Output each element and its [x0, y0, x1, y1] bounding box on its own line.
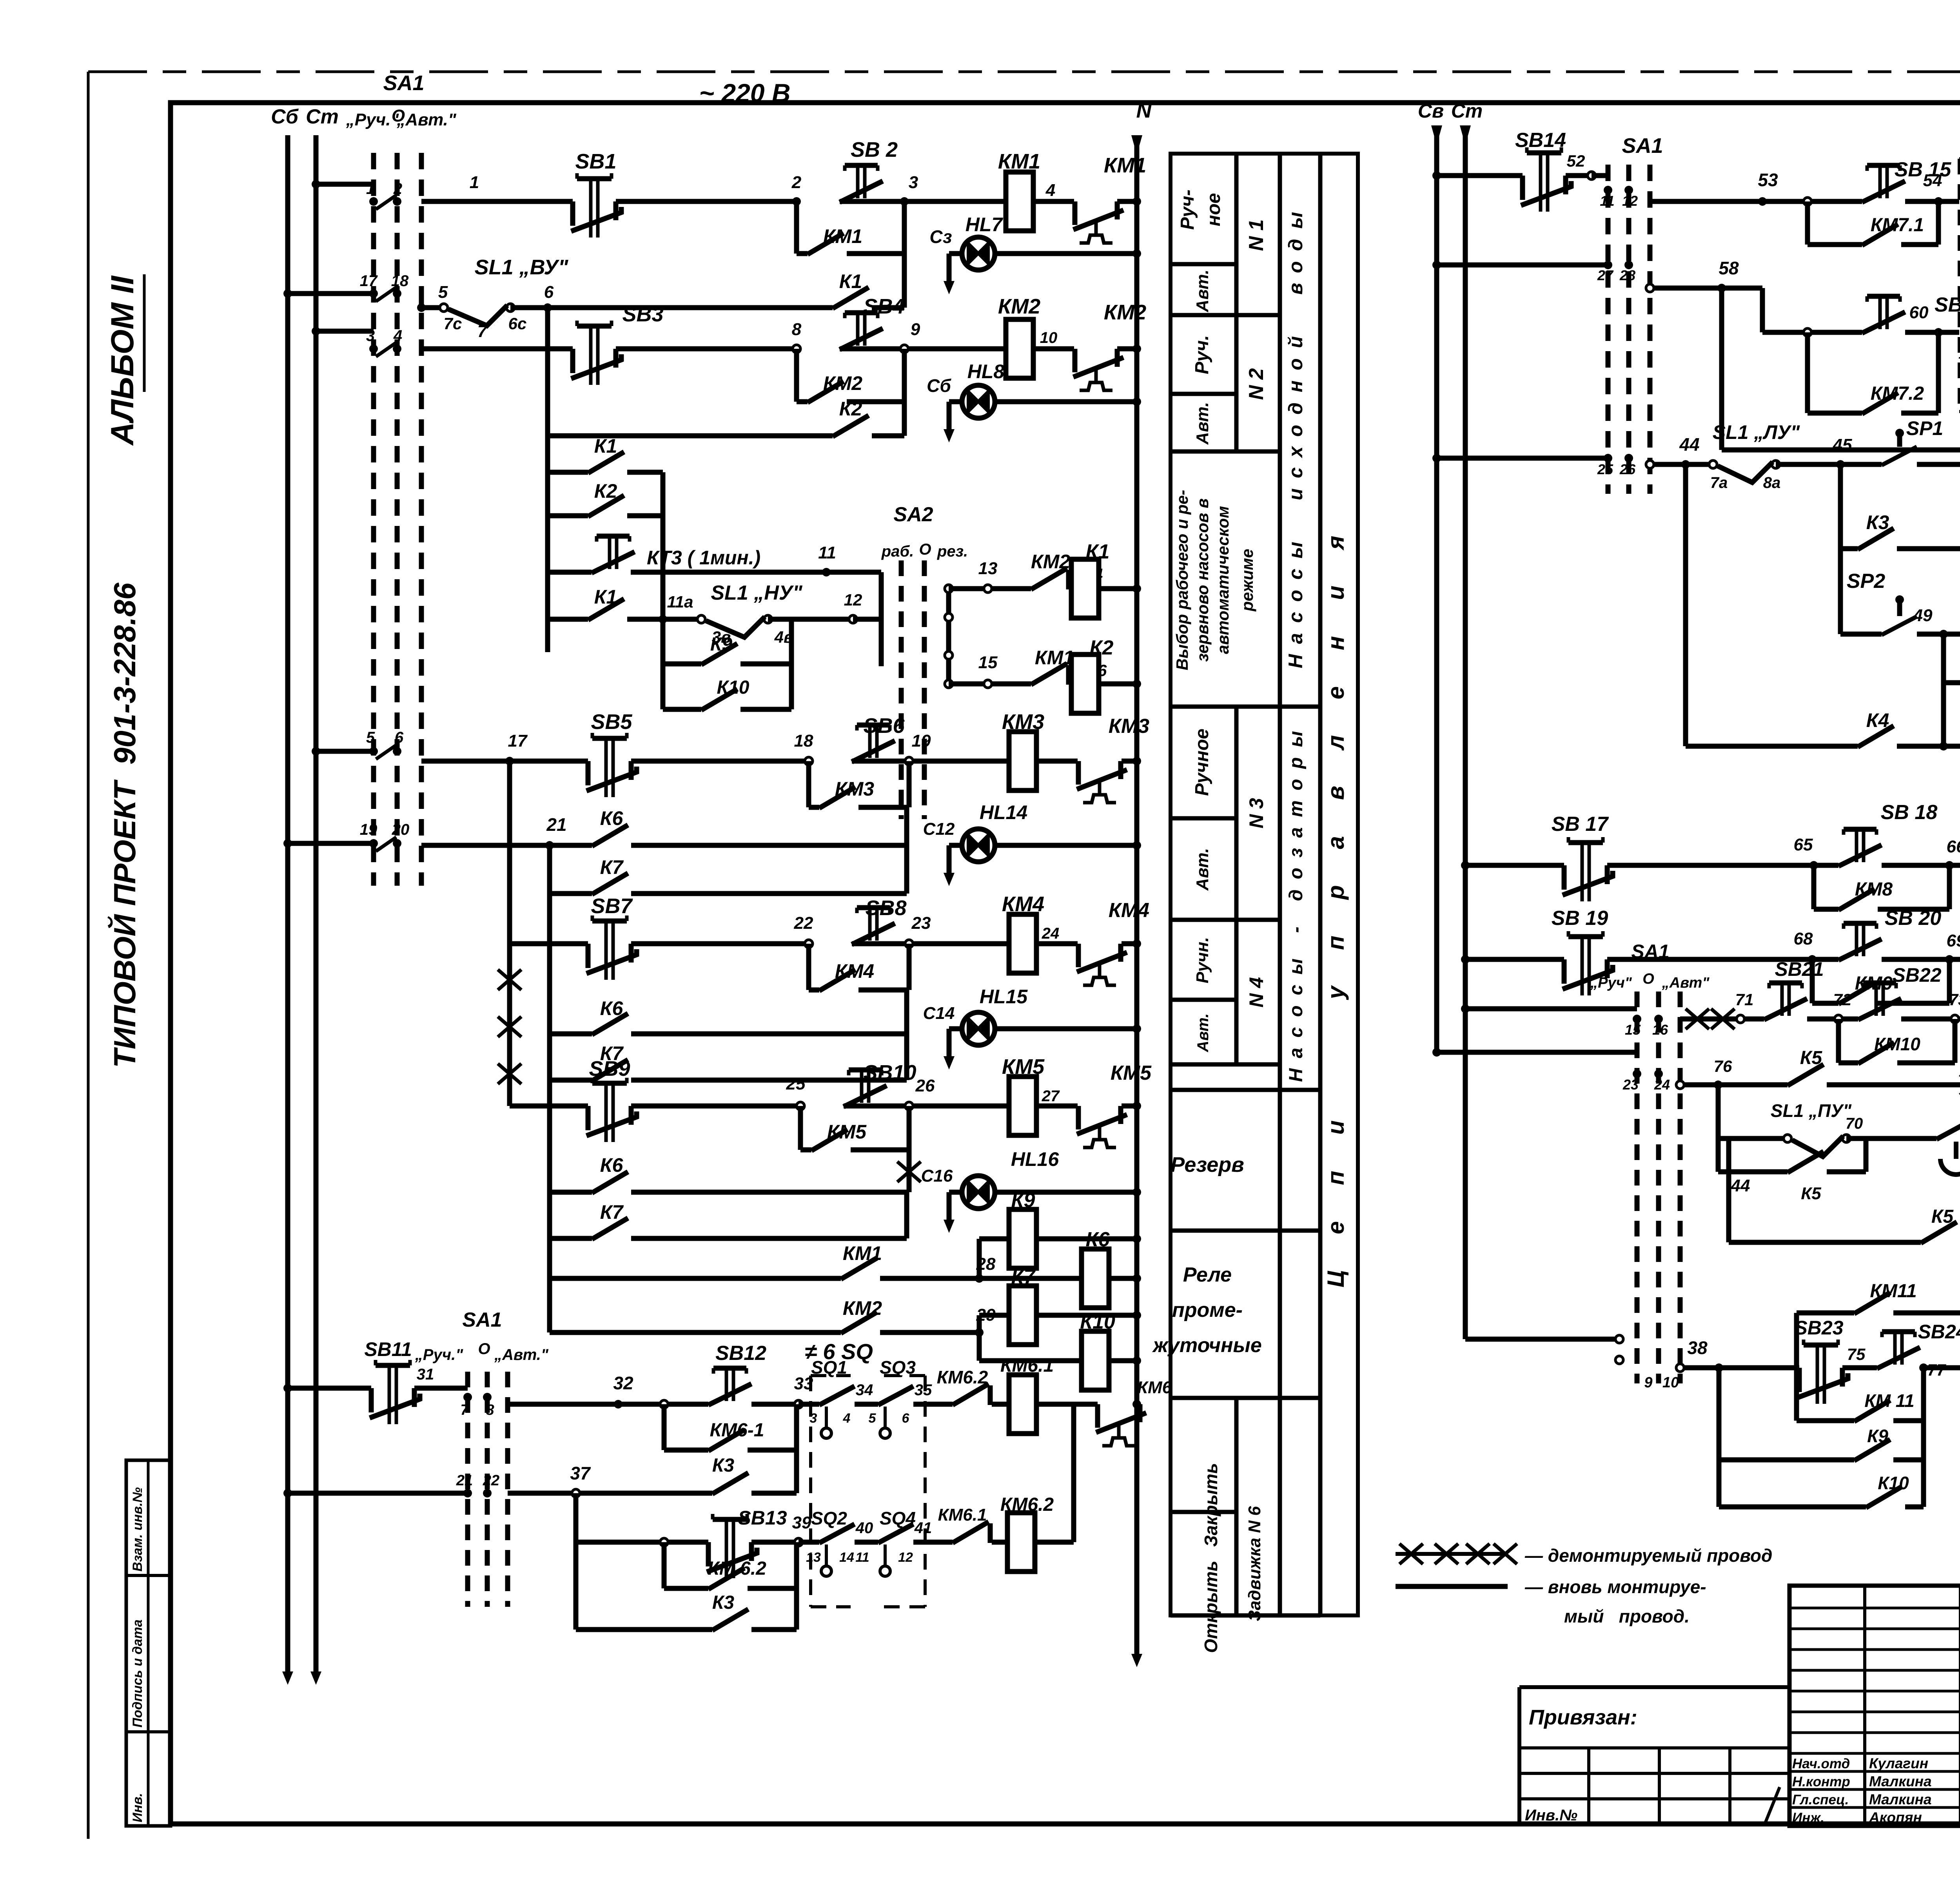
contact KM8 aux	[1838, 889, 1875, 910]
contact K6 row21	[592, 825, 628, 846]
node 3 junction	[900, 197, 909, 206]
svg-text:жуточные: жуточные	[1152, 1334, 1262, 1357]
N junction rung2	[1132, 344, 1141, 353]
contact K9	[701, 644, 737, 665]
svg-text:раб.: раб.	[881, 543, 914, 560]
svg-text:Сб: Сб	[927, 375, 951, 396]
svg-text:SA1: SA1	[462, 1309, 502, 1331]
svg-text:К2: К2	[1090, 636, 1114, 659]
6SQ dashed box	[811, 1376, 925, 1607]
svg-text:Ручн.: Ручн.	[1193, 937, 1212, 983]
SP1 stem	[1897, 436, 1902, 447]
privyazan box	[1519, 1687, 1789, 1826]
svg-text:КМ5: КМ5	[1111, 1062, 1152, 1084]
contact KM4 aux	[819, 970, 855, 991]
svg-text:68: 68	[1794, 929, 1813, 948]
svg-text:53: 53	[1758, 170, 1778, 190]
svg-text:22: 22	[794, 914, 813, 933]
svg-text:„Руч": „Руч"	[1590, 975, 1632, 991]
lamp HL8	[962, 385, 995, 418]
svg-text:9: 9	[911, 320, 920, 339]
svg-text:HL8: HL8	[967, 361, 1005, 383]
vertical to K5 83 row	[1726, 1138, 1731, 1242]
pushbutton SB24	[1895, 1332, 1902, 1365]
svg-text:15: 15	[978, 653, 998, 672]
svg-text:2: 2	[791, 173, 802, 192]
svg-text:КМ7.2: КМ7.2	[1871, 383, 1924, 404]
svg-text:SB1: SB1	[575, 150, 616, 173]
svg-text:11: 11	[818, 543, 836, 562]
KM7.1 aux row	[1805, 201, 1810, 245]
svg-text:— вновь монтируе-: — вновь монтируе-	[1524, 1577, 1706, 1597]
svg-text:39: 39	[792, 1513, 811, 1532]
pushbutton SB23	[1817, 1345, 1824, 1404]
junction 32a	[660, 1400, 668, 1408]
wire rung KM3	[421, 759, 510, 764]
title block thin row 9	[1789, 1788, 1960, 1791]
KM4 aux branch	[806, 944, 811, 990]
svg-text:SA1: SA1	[383, 71, 424, 95]
tick 24	[1654, 1070, 1663, 1078]
junction 39a	[660, 1538, 668, 1546]
SA1 bottom dashed line 2	[485, 1372, 490, 1607]
wire rung 1	[421, 199, 573, 204]
svg-text:12: 12	[898, 1550, 913, 1565]
node 45 junction	[1836, 460, 1845, 469]
svg-text:Ст: Ст	[1451, 100, 1483, 122]
N junction HL15	[1132, 1024, 1141, 1033]
svg-text:К2: К2	[839, 398, 862, 420]
arrow C5	[947, 402, 952, 429]
svg-text:11а: 11а	[667, 593, 693, 611]
SA2 dashed line 1	[899, 560, 904, 819]
left table row line y=3567	[1171, 1396, 1320, 1400]
svg-text:28: 28	[1619, 267, 1635, 283]
7SQ dashed box	[1959, 159, 1960, 412]
block left rail vertical	[545, 436, 550, 652]
left table row line y=1152	[1171, 450, 1280, 454]
svg-text:60: 60	[1909, 303, 1929, 322]
svg-text:Открыть: Открыть	[1201, 1561, 1221, 1653]
wire SL1 to K1	[510, 305, 548, 310]
pushbutton SB21	[1782, 983, 1789, 1016]
N junction HL7	[1132, 249, 1141, 258]
svg-text:21: 21	[546, 814, 566, 835]
svg-text:Привязан:: Привязан:	[1529, 1706, 1637, 1729]
svg-text:4: 4	[843, 1411, 851, 1426]
N junction K7 coil	[1132, 1311, 1141, 1320]
svg-text:КМ6.2: КМ6.2	[937, 1367, 988, 1387]
N junction KM3	[1132, 757, 1141, 765]
svg-text:К6: К6	[600, 997, 624, 1019]
svg-text:24: 24	[1042, 925, 1060, 942]
contact K3 row37	[712, 1473, 748, 1494]
svg-text:Руч-: Руч-	[1177, 190, 1198, 230]
bus Sv arrow top	[1431, 125, 1442, 145]
node 15	[984, 680, 992, 688]
wire SB14 to SA1	[1566, 173, 1592, 178]
SA1 right dashed line 2	[1626, 165, 1632, 494]
tick 16	[1654, 1015, 1663, 1023]
svg-text:С14: С14	[923, 1004, 955, 1023]
svg-text:21: 21	[456, 1472, 473, 1489]
contact K10 bottom	[1866, 1486, 1902, 1508]
SA1 bottom junction	[1615, 1356, 1623, 1364]
svg-text:Гл.спец.: Гл.спец.	[1792, 1792, 1849, 1807]
contact K1 block	[588, 452, 624, 473]
contact K1 second	[588, 599, 624, 620]
svg-text:5: 5	[366, 729, 375, 746]
svg-text:SB3: SB3	[622, 303, 663, 326]
title block thin row 10	[1789, 1806, 1960, 1809]
svg-text:34: 34	[856, 1381, 873, 1399]
coil K9	[1009, 1209, 1036, 1268]
node 28 junction	[975, 1274, 984, 1283]
svg-text:С12: С12	[923, 819, 955, 839]
node 11a junction	[659, 615, 667, 624]
svg-text:КМ4: КМ4	[835, 960, 874, 982]
SA1 right bottom dashed 1	[1635, 992, 1640, 1383]
svg-text:КМ6.2: КМ6.2	[1000, 1494, 1054, 1515]
node 76 junction	[1714, 1080, 1722, 1089]
float switch SL1 VU	[440, 304, 448, 312]
wire SQ row upper	[799, 1402, 819, 1407]
svg-text:44: 44	[1731, 1176, 1750, 1195]
svg-text:3: 3	[810, 1411, 817, 1426]
contact KM6.1 interlock	[953, 1522, 989, 1543]
contact K6 third	[592, 1172, 628, 1193]
svg-text:Закрыть: Закрыть	[1201, 1463, 1221, 1547]
KM8 aux row	[1811, 865, 1817, 909]
SA1 blade row1	[376, 195, 396, 209]
wire rung 53	[1650, 199, 1762, 204]
svg-text:Авт.: Авт.	[1193, 402, 1212, 445]
lamp HL8 branch wire	[949, 399, 962, 404]
svg-text:К5: К5	[1931, 1206, 1954, 1227]
svg-text:К7: К7	[600, 1201, 624, 1223]
pushbutton SB12	[726, 1368, 733, 1401]
wire K6 row 21	[421, 843, 550, 848]
float switch SL1 PU	[1784, 1135, 1791, 1142]
coil KM6.2	[1007, 1513, 1035, 1572]
wire 15 row	[949, 682, 988, 687]
limit switch SQ1	[819, 1386, 855, 1405]
N junction KM6	[1132, 1400, 1141, 1409]
wire rung 58	[1650, 286, 1722, 291]
KM10 aux row	[1836, 1019, 1841, 1063]
SA1 dashed line 1	[371, 153, 376, 886]
svg-text:25: 25	[786, 1074, 806, 1093]
N junction K1 coil	[1132, 584, 1141, 593]
node26 vertical with X	[907, 1106, 912, 1192]
svg-text:3: 3	[909, 173, 918, 192]
svg-text:К3: К3	[1866, 511, 1889, 533]
svg-text:5: 5	[869, 1411, 877, 1426]
node 29 junction	[975, 1328, 984, 1337]
svg-text:КМ6.1: КМ6.1	[1000, 1355, 1054, 1376]
svg-text:Ручное: Ручное	[1192, 729, 1212, 796]
contact K5 aux44	[1788, 1151, 1824, 1173]
svg-text:К10: К10	[1878, 1473, 1909, 1493]
bus Sb vertical	[285, 135, 290, 1648]
title block thin row 2	[1789, 1648, 1960, 1651]
svg-text:17: 17	[508, 731, 528, 750]
svg-text:„Авт.": „Авт."	[396, 110, 457, 129]
svg-text:7: 7	[477, 322, 488, 341]
KM3 aux branch	[806, 761, 811, 807]
wire SP1 to 46	[1917, 462, 1960, 467]
svg-text:SA2: SA2	[893, 503, 933, 526]
svg-text:8а: 8а	[1763, 474, 1781, 491]
svg-text:мый провод.: мый провод.	[1564, 1606, 1690, 1626]
left table row line y=3858	[1171, 1510, 1236, 1514]
thermal contact KM2	[1073, 349, 1078, 372]
wire rung K5	[1680, 1082, 1718, 1088]
wire SQ row lower	[799, 1540, 819, 1545]
contact K9 row wire	[663, 662, 701, 667]
bus St bottom arrow	[314, 1648, 319, 1671]
wire rung 53 to SQ row link	[1936, 201, 1941, 214]
KM11 aux2 row	[1794, 1368, 1799, 1421]
svg-text:SL1 „НУ": SL1 „НУ"	[711, 582, 803, 604]
svg-text:„Руч.": „Руч."	[415, 1346, 463, 1363]
N rail arrow top left schematic	[1131, 135, 1142, 155]
svg-text:5: 5	[438, 283, 448, 302]
time contact KT3 a	[1936, 1118, 1960, 1139]
svg-text:SB 18: SB 18	[1881, 801, 1938, 824]
left annotation table outline	[1171, 154, 1358, 1615]
svg-text:КМ1: КМ1	[1104, 154, 1146, 177]
svg-text:— демонтируемый провод: — демонтируемый провод	[1524, 1545, 1772, 1566]
svg-text:К6: К6	[600, 807, 624, 829]
contact KM1 aux	[808, 233, 844, 254]
bus St vertical	[314, 135, 319, 1648]
svg-text:КМ11: КМ11	[1870, 1281, 1916, 1302]
node66 vertical	[1947, 865, 1952, 909]
contact KM5 aux	[811, 1129, 848, 1151]
contact KM1 row28	[841, 1258, 877, 1279]
N junction KM5	[1132, 1102, 1141, 1110]
limit switch SQ2	[819, 1524, 855, 1543]
svg-text:70: 70	[1846, 1115, 1863, 1132]
svg-text:К9: К9	[710, 634, 733, 655]
svg-text:HL7: HL7	[965, 214, 1004, 236]
feed wire 21-22 from Sb	[288, 1491, 468, 1496]
KT3 time contact row wire	[548, 570, 592, 575]
tick 4	[393, 344, 401, 353]
K4 contact second row	[1719, 288, 1724, 450]
SA1 tick node 2	[393, 197, 401, 206]
svg-text:SP1: SP1	[1906, 417, 1944, 439]
left table col line 2	[1278, 154, 1282, 1615]
wire SB17 to 65	[1607, 863, 1814, 868]
left table col line 1	[1234, 154, 1239, 451]
node 21 junction	[545, 841, 554, 850]
tick 8	[483, 1393, 492, 1401]
bus St jog to SA1	[1465, 1337, 1619, 1342]
node 25 junction	[797, 1102, 804, 1110]
tick 26	[1624, 454, 1633, 462]
contact KM3 aux	[819, 787, 855, 808]
vertical to K7 row	[904, 845, 909, 894]
lamp HL15 branch	[949, 1026, 962, 1031]
svg-text:Взам. инв.№: Взам. инв.№	[130, 1487, 145, 1572]
svg-text:Малкина: Малкина	[1869, 1773, 1932, 1789]
node 33 junction	[795, 1400, 802, 1408]
SP2 row	[1838, 549, 1843, 634]
SL1 NU lower vertical	[789, 619, 794, 664]
wire KM2 contact row to K7 coil	[550, 1330, 841, 1335]
coil KM5	[1009, 1077, 1036, 1135]
svg-text:65: 65	[1794, 835, 1813, 854]
svg-text:SB6: SB6	[863, 714, 905, 738]
wire rung 37	[508, 1491, 576, 1496]
svg-text:Инв.№: Инв.№	[1525, 1807, 1577, 1824]
node 66 junction	[1945, 861, 1954, 870]
X mark km10 feed 2	[1711, 1009, 1735, 1029]
float switch SL1 LU	[1709, 460, 1717, 468]
svg-text:Инж.: Инж.	[1792, 1810, 1824, 1825]
feed wire 27-28	[1437, 263, 1608, 268]
svg-text:Насосы - дозаторы: Насосы - дозаторы	[1286, 721, 1307, 1082]
feed wire SB17	[1465, 863, 1564, 868]
contact K1 block row wire	[548, 470, 588, 475]
feed wire 15-16	[1465, 1006, 1637, 1012]
node19 vertical	[907, 761, 912, 807]
svg-text:23: 23	[911, 914, 931, 933]
arrow C16	[947, 1192, 952, 1220]
node 12 junction	[849, 615, 857, 623]
svg-text:Резерв: Резерв	[1171, 1153, 1244, 1177]
svg-text:71: 71	[1735, 990, 1754, 1009]
svg-text:К10: К10	[717, 677, 750, 698]
SA2 dashed line 2	[922, 560, 927, 819]
node 69 junction	[1945, 955, 1954, 964]
SA1 right bottom dashed 3	[1678, 992, 1683, 1383]
svg-text:1: 1	[366, 180, 375, 198]
svg-text:SQ1: SQ1	[811, 1357, 847, 1378]
K4 contact row upper	[1760, 286, 1765, 291]
wire SP2 to 49	[1917, 632, 1944, 637]
node 54 junction	[1934, 197, 1943, 206]
node54 vertical	[1936, 214, 1941, 245]
svg-text:SB14: SB14	[1515, 129, 1566, 152]
coil K1	[1071, 559, 1099, 618]
svg-text:Насосы исходной воды: Насосы исходной воды	[1285, 202, 1307, 668]
svg-text:11: 11	[1600, 193, 1614, 209]
svg-text:КМ4: КМ4	[1109, 899, 1149, 922]
node 17 junction	[505, 757, 514, 765]
K10 coil branch	[977, 1332, 982, 1361]
svg-text:6: 6	[902, 1411, 910, 1426]
X mark node26	[897, 1162, 921, 1182]
svg-text:КМ1: КМ1	[1035, 647, 1074, 669]
tick 19	[369, 839, 378, 848]
coil K7	[1009, 1286, 1036, 1345]
node 49 junction	[1939, 630, 1948, 638]
svg-text:44: 44	[1679, 434, 1699, 455]
left table row line y=674	[1171, 262, 1236, 266]
title block thin row 6	[1789, 1731, 1960, 1734]
svg-text:КМ 6.2: КМ 6.2	[708, 1558, 766, 1579]
KM5 aux branch	[798, 1106, 803, 1150]
wire 68 to SB20	[1812, 957, 1838, 962]
SA1 blade row 19-20	[376, 837, 396, 851]
svg-text:SB12: SB12	[715, 1342, 766, 1365]
coil K2	[1071, 654, 1099, 713]
svg-text:„Авт": „Авт"	[1662, 975, 1710, 991]
node 44 junction	[1681, 460, 1690, 469]
wire SL1 VU row	[419, 294, 424, 308]
contact KM7.2 aux	[1862, 393, 1898, 414]
float switch SL1 NU	[697, 615, 705, 623]
KM2 aux contact wire	[797, 399, 808, 404]
node69 vertical	[1947, 959, 1952, 1003]
svg-text:Малкина: Малкина	[1869, 1791, 1932, 1807]
left table row line y=2088	[1171, 816, 1236, 821]
SA1 blade row 3-4	[376, 343, 396, 357]
svg-text:К6: К6	[600, 1154, 624, 1176]
N junction K2 coil	[1132, 680, 1141, 688]
arrow C14	[947, 1029, 952, 1056]
vertical 38 up	[1794, 1313, 1799, 1368]
left table row line y=2551	[1171, 998, 1236, 1002]
title block thin row 0	[1789, 1607, 1960, 1610]
pushbutton SB2	[858, 165, 865, 198]
svg-text:К7: К7	[1011, 1265, 1036, 1288]
svg-text:автоматическом: автоматическом	[1214, 506, 1232, 654]
vertical 76 down	[1716, 1085, 1721, 1172]
margin table box	[126, 1460, 171, 1826]
bus Sv vertical	[1434, 129, 1439, 1052]
svg-text:К3: К3	[712, 1455, 735, 1476]
svg-text:проме-: проме-	[1172, 1299, 1243, 1322]
svg-text:22: 22	[483, 1472, 499, 1489]
svg-text:SB 19: SB 19	[1552, 907, 1608, 930]
svg-text:К10: К10	[1080, 1311, 1115, 1333]
node 60 junction	[1934, 328, 1943, 337]
contact K9 bottom	[1854, 1439, 1890, 1461]
node 53 junction	[1758, 197, 1767, 206]
wire rung KM4	[510, 941, 588, 946]
svg-text:19: 19	[360, 821, 377, 838]
svg-text:75: 75	[1847, 1345, 1866, 1363]
N junction K9 coil	[1132, 1235, 1141, 1243]
title block left grid columns	[1863, 1586, 1866, 1826]
N rail bottom arrow left	[1134, 1638, 1140, 1654]
svg-text:КТ3 ( 1мин.): КТ3 ( 1мин.)	[647, 547, 760, 569]
svg-text:SB23: SB23	[1794, 1317, 1843, 1339]
K9 bottom row	[1717, 1368, 1722, 1460]
vertical 39 to aux	[794, 1542, 799, 1588]
demounted vertical with X marks	[507, 944, 512, 1106]
svg-text:Задвижка N 6: Задвижка N 6	[1245, 1506, 1264, 1621]
contact K5 rung	[1788, 1064, 1824, 1086]
svg-text:КМ2: КМ2	[1031, 551, 1070, 573]
title block outline	[1789, 1586, 1960, 1826]
contact K7 second	[592, 1060, 628, 1081]
N junction K10 coil	[1132, 1356, 1141, 1365]
svg-text:Цепи управления: Цепи управления	[1323, 500, 1349, 1287]
svg-text:„Авт.": „Авт."	[494, 1346, 549, 1363]
feed wire 3-4 from St	[316, 329, 374, 334]
pushbutton SB8	[870, 908, 877, 941]
svg-text:HL14: HL14	[980, 801, 1027, 823]
contact K7 row wire	[547, 845, 552, 894]
contact KM9 aux	[1838, 983, 1875, 1004]
svg-text:72: 72	[1833, 990, 1852, 1009]
SA1 dashed line 2	[395, 153, 400, 886]
